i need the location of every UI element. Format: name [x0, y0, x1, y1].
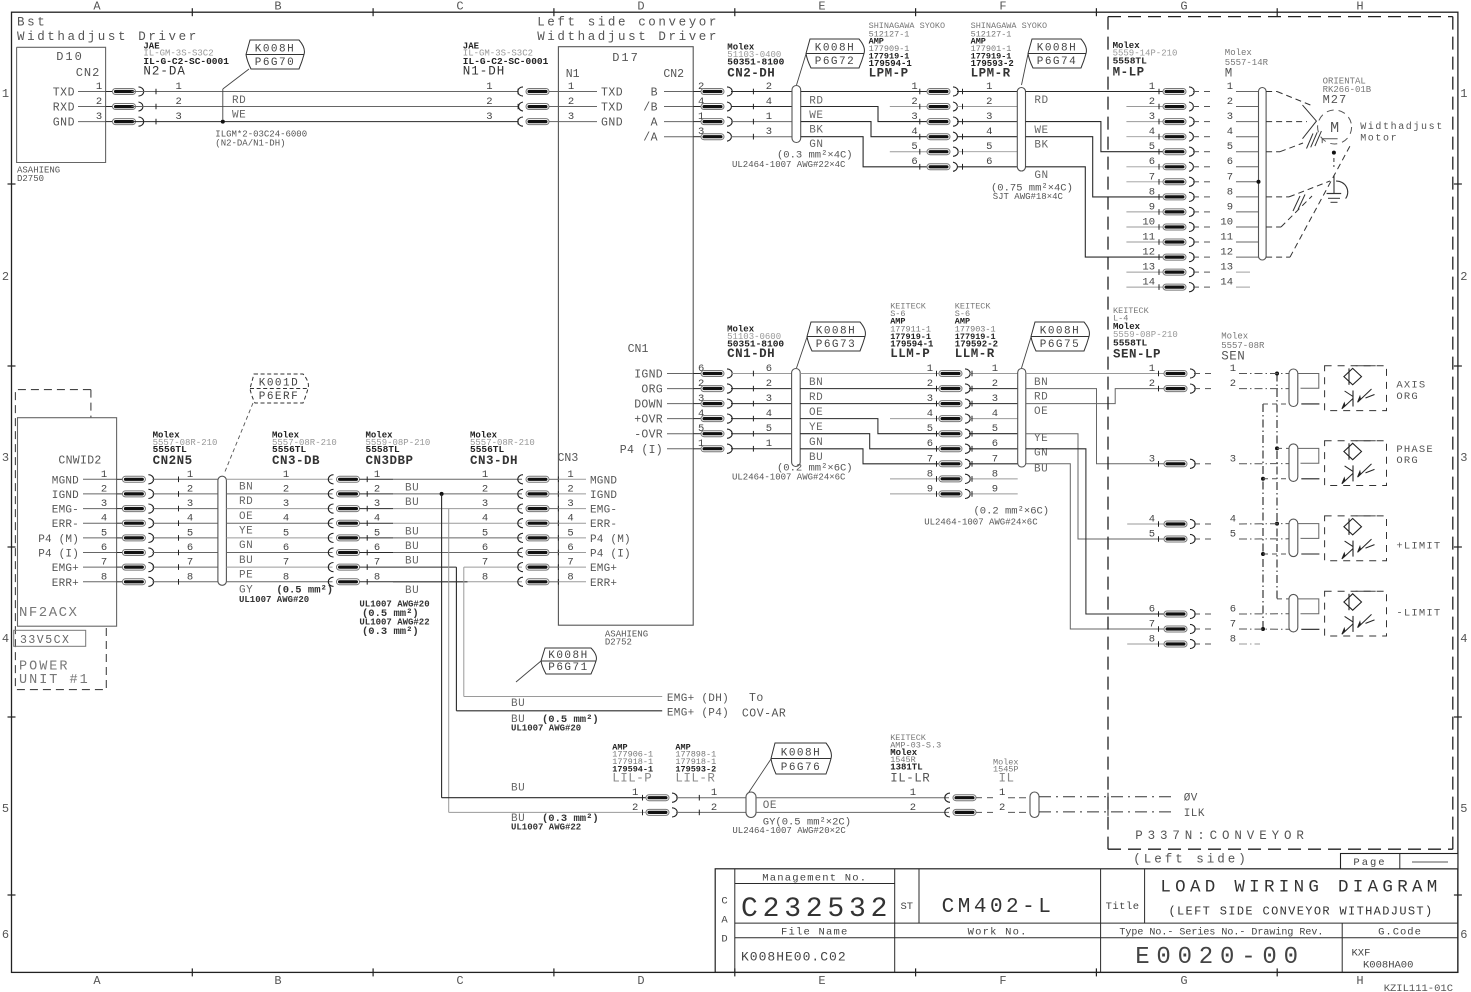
svg-text:RXD: RXD — [53, 102, 75, 115]
svg-text:5: 5 — [187, 527, 193, 539]
svg-text:(LEFT SIDE CONVEYOR WITHADJUST: (LEFT SIDE CONVEYOR WITHADJUST) — [1168, 905, 1433, 919]
svg-text:Widthadjust Driver: Widthadjust Driver — [17, 30, 199, 44]
sensor bus line B LED supply — [1275, 372, 1279, 599]
ground symbol — [1327, 158, 1348, 202]
svg-text:3: 3 — [2, 451, 9, 465]
power unit dashed enclosure — [15, 390, 106, 690]
svg-text:6: 6 — [1230, 604, 1236, 616]
driver box D17 — [558, 47, 693, 626]
svg-text:6: 6 — [766, 363, 772, 375]
svg-text:11: 11 — [1142, 232, 1155, 244]
svg-text:Molex: Molex — [1221, 332, 1248, 342]
svg-text:9: 9 — [1149, 201, 1155, 213]
svg-text:YE: YE — [809, 422, 823, 434]
svg-text:NF2ACX: NF2ACX — [19, 605, 78, 621]
header Molex CN3-DH — [470, 431, 535, 468]
svg-text:Widthadjust Driver: Widthadjust Driver — [537, 30, 719, 44]
svg-text:BN: BN — [239, 482, 253, 494]
svg-text:BU: BU — [405, 541, 419, 553]
svg-text:BU: BU — [405, 497, 419, 509]
svg-text:2: 2 — [1230, 378, 1236, 390]
sensor housing dashed box — [1325, 441, 1387, 486]
svg-text:33V5CX: 33V5CX — [20, 634, 70, 647]
svg-text:5: 5 — [911, 141, 917, 153]
svg-text:COV-AR: COV-AR — [742, 708, 786, 721]
svg-text:WE: WE — [809, 110, 823, 122]
svg-text:BN: BN — [1034, 377, 1048, 389]
svg-text:3: 3 — [374, 498, 380, 510]
svg-text:1: 1 — [766, 438, 772, 450]
svg-text:9: 9 — [927, 483, 933, 495]
photo interrupter LED symbol — [1344, 591, 1376, 610]
wire rows into LIL-P — [442, 783, 646, 833]
svg-text:8: 8 — [374, 571, 380, 583]
svg-text:P4 (I): P4 (I) — [590, 549, 631, 561]
connector LPM-P to LPM-R rows — [911, 81, 1017, 171]
svg-text:D2750: D2750 — [17, 174, 44, 184]
svg-text:ORG: ORG — [641, 384, 663, 397]
page number box — [1341, 854, 1458, 870]
header Molex CN2N5 — [153, 431, 218, 468]
svg-text:CNWID2: CNWID2 — [58, 455, 101, 468]
svg-text:2: 2 — [999, 802, 1005, 814]
svg-text:UNIT #1: UNIT #1 — [19, 673, 90, 688]
svg-text:4: 4 — [101, 513, 107, 525]
svg-text:AXIS: AXIS — [1396, 380, 1426, 392]
sensor wiring loop — [1298, 448, 1320, 478]
svg-text:SEN-LP: SEN-LP — [1113, 347, 1161, 361]
svg-text:Work No.: Work No. — [968, 927, 1028, 939]
svg-text:C: C — [456, 974, 463, 988]
svg-text:(0.3 mm²): (0.3 mm²) — [362, 626, 419, 638]
svg-text:+OVR: +OVR — [634, 414, 663, 427]
title block — [715, 869, 1458, 973]
header Molex M — [1225, 48, 1269, 81]
svg-text:5: 5 — [1149, 141, 1155, 153]
svg-text:PE: PE — [239, 569, 253, 581]
sensor connector sheath — [1289, 444, 1298, 482]
svg-text:2: 2 — [1149, 378, 1155, 390]
svg-text:CN3: CN3 — [558, 452, 579, 465]
header KEITECK LLM-P — [890, 302, 934, 361]
svg-text:GN: GN — [239, 540, 253, 552]
svg-text:LPM-P: LPM-P — [869, 67, 909, 81]
svg-text:4: 4 — [482, 513, 488, 525]
svg-text:-LIMIT: -LIMIT — [1396, 608, 1441, 620]
svg-text:IGND: IGND — [52, 490, 79, 502]
label P337N CONVEYOR Left side — [1133, 829, 1309, 867]
svg-text:Bst: Bst — [17, 16, 47, 30]
svg-text:P6G75: P6G75 — [1040, 339, 1081, 351]
sensor housing dashed box — [1325, 366, 1387, 411]
svg-text:8: 8 — [1149, 186, 1155, 198]
wire rows CN2 to CN2-DH cable — [693, 81, 792, 141]
svg-text:3: 3 — [175, 111, 181, 123]
svg-text:2: 2 — [927, 378, 933, 390]
svg-text:5: 5 — [986, 141, 992, 153]
junction dot below motor — [1332, 151, 1336, 155]
svg-text:4: 4 — [927, 408, 933, 420]
svg-text:CN2N5: CN2N5 — [153, 454, 193, 468]
svg-text:1: 1 — [766, 111, 772, 123]
svg-text:14: 14 — [1220, 277, 1233, 289]
driver box D10 — [17, 47, 106, 162]
svg-text:G: G — [1180, 974, 1187, 988]
svg-text:WE: WE — [232, 110, 246, 122]
header JAE N1-DH — [463, 42, 549, 79]
svg-text:BK: BK — [809, 124, 823, 136]
svg-text:2: 2 — [175, 96, 181, 108]
svg-text:MGND: MGND — [590, 475, 617, 487]
svg-text:8: 8 — [992, 468, 998, 480]
wire colors BN RD OE YE GN BU and routing to SEN-LP — [924, 374, 1164, 630]
svg-text:5: 5 — [766, 423, 772, 435]
svg-text:CN2: CN2 — [76, 66, 101, 80]
label POWER UNIT #1 — [19, 660, 90, 689]
svg-text:7: 7 — [187, 557, 193, 569]
svg-text:F: F — [999, 0, 1006, 14]
wire rows CN2N5 to CN3-DB to CN3DBP — [226, 469, 393, 587]
svg-text:3: 3 — [486, 111, 492, 123]
svg-text:K008HE00.C02: K008HE00.C02 — [741, 950, 847, 965]
svg-text:UL2464-1007 AWG#24×6C: UL2464-1007 AWG#24×6C — [732, 473, 846, 483]
svg-text:3: 3 — [101, 498, 107, 510]
svg-text:6: 6 — [911, 156, 917, 168]
photo interrupter LED symbol — [1344, 366, 1376, 385]
svg-text:6: 6 — [927, 438, 933, 450]
svg-text:3: 3 — [1149, 453, 1155, 465]
svg-text:UL1007 AWG#20: UL1007 AWG#20 — [511, 724, 581, 734]
svg-text:M: M — [1225, 67, 1233, 81]
svg-text:ERR-: ERR- — [590, 519, 617, 531]
cable flag K008H P6G75 — [1022, 322, 1090, 368]
photo transistor symbol — [1342, 464, 1375, 484]
svg-text:GN: GN — [1034, 448, 1048, 460]
svg-text:IL-LR: IL-LR — [890, 772, 930, 786]
svg-text:UL2464-1007 AWG#22×4C: UL2464-1007 AWG#22×4C — [732, 160, 846, 170]
wire tap verticals to lower section — [442, 494, 464, 813]
svg-text:1: 1 — [911, 81, 917, 93]
svg-text:8: 8 — [101, 571, 107, 583]
header Molex M-LP — [1113, 41, 1178, 80]
svg-text:6: 6 — [992, 438, 998, 450]
svg-text:4: 4 — [2, 632, 9, 646]
svg-text:P4 (I): P4 (I) — [620, 444, 663, 457]
svg-text:UL2464-1007 AWG#20×2C: UL2464-1007 AWG#20×2C — [732, 826, 846, 836]
svg-text:5: 5 — [374, 527, 380, 539]
svg-text:9: 9 — [992, 483, 998, 495]
svg-text:1: 1 — [175, 81, 181, 93]
svg-text:EMG-: EMG- — [590, 505, 617, 517]
svg-text:3: 3 — [1227, 111, 1233, 123]
svg-text:G: G — [1180, 0, 1187, 14]
svg-text:2: 2 — [766, 81, 772, 93]
svg-text:8: 8 — [1149, 634, 1155, 646]
svg-text:1: 1 — [283, 469, 289, 481]
svg-text:RD: RD — [809, 392, 823, 404]
junction dot M pin7 — [1257, 180, 1261, 184]
svg-text:Widthadjust: Widthadjust — [1360, 121, 1444, 133]
connector LIL-P to LIL-R rows — [632, 787, 746, 817]
svg-text:P6ERF: P6ERF — [259, 391, 300, 403]
header KEITECK LLM-R — [955, 302, 998, 361]
svg-text:6: 6 — [482, 542, 488, 554]
svg-text:BU: BU — [1034, 464, 1048, 476]
svg-text:5: 5 — [1460, 802, 1467, 816]
svg-text:N2-DA: N2-DA — [143, 65, 186, 79]
svg-text:4: 4 — [1149, 126, 1155, 138]
svg-text:9: 9 — [1227, 201, 1233, 213]
svg-text:LOAD WIRING DIAGRAM: LOAD WIRING DIAGRAM — [1160, 878, 1441, 898]
svg-text:12: 12 — [1142, 247, 1155, 259]
svg-text:ERR-: ERR- — [52, 519, 79, 531]
svg-text:P4 (I): P4 (I) — [38, 549, 79, 561]
svg-text:H: H — [1356, 974, 1363, 988]
sensor label -LIMIT — [1396, 608, 1441, 620]
header Molex CN3DBP — [366, 431, 431, 468]
svg-text:1: 1 — [927, 363, 933, 375]
motor M circle — [1318, 110, 1352, 144]
svg-text:TXD: TXD — [53, 87, 75, 100]
cable sheath IL — [1030, 792, 1039, 818]
header Molex CN3-DB — [272, 431, 337, 468]
cable sheath LPM-R — [1017, 88, 1025, 172]
svg-text:3: 3 — [766, 126, 772, 138]
svg-text:2: 2 — [992, 378, 998, 390]
svg-text:B: B — [651, 87, 658, 100]
svg-text:BU: BU — [511, 783, 525, 795]
svg-text:1: 1 — [1227, 81, 1233, 93]
svg-text:CN2-DH: CN2-DH — [727, 67, 775, 81]
svg-text:CN1-DH: CN1-DH — [727, 347, 775, 361]
svg-text:BU: BU — [239, 555, 253, 567]
svg-text:2: 2 — [101, 483, 107, 495]
svg-text:C: C — [721, 896, 727, 908]
svg-text:1: 1 — [486, 81, 492, 93]
svg-text:1: 1 — [101, 469, 107, 481]
svg-text:Title: Title — [1106, 901, 1140, 913]
svg-text:G.Code: G.Code — [1378, 927, 1422, 939]
svg-text:RD: RD — [239, 496, 253, 508]
svg-text:1: 1 — [1460, 87, 1467, 101]
svg-text:B: B — [274, 0, 281, 14]
svg-text:K008HA00: K008HA00 — [1363, 960, 1413, 972]
sensor connector sheath — [1289, 519, 1298, 557]
svg-text:7: 7 — [1230, 619, 1236, 631]
header SHINAGAWA LPM-P — [869, 21, 946, 81]
wire rows LIL-R to IL-LR — [756, 787, 976, 817]
cable sheath CN2N5 — [218, 476, 227, 585]
svg-text:GN: GN — [809, 437, 823, 449]
cable flag K001D P6ERF dashed — [224, 374, 308, 474]
svg-text:D: D — [637, 974, 644, 988]
svg-text:4: 4 — [1227, 126, 1233, 138]
svg-text:KZIL111-01C: KZIL111-01C — [1384, 983, 1453, 992]
svg-text:PHASE: PHASE — [1396, 444, 1434, 456]
svg-text:5: 5 — [1227, 141, 1233, 153]
conveyor dashed enclosure P337N — [1108, 17, 1453, 850]
svg-text:7: 7 — [927, 453, 933, 465]
svg-text:Management No.: Management No. — [762, 872, 867, 884]
svg-text:P6G72: P6G72 — [815, 56, 856, 68]
svg-text:YE: YE — [1034, 433, 1048, 445]
svg-text:3: 3 — [482, 498, 488, 510]
svg-text:LLM-R: LLM-R — [955, 347, 995, 361]
svg-text:ERR+: ERR+ — [590, 578, 617, 590]
svg-text:3: 3 — [96, 111, 102, 123]
cable notes UL1007 AWG — [359, 600, 429, 639]
connector SEN-LP to SEN 8 rows — [1127, 363, 1236, 649]
connector CN1 of D17 pins — [620, 343, 792, 457]
svg-text:B: B — [274, 974, 281, 988]
svg-text:GND: GND — [601, 117, 623, 130]
svg-text:IGND: IGND — [590, 490, 617, 502]
svg-text:3: 3 — [927, 393, 933, 405]
svg-text:BN: BN — [809, 377, 823, 389]
photo transistor symbol — [1342, 539, 1375, 559]
svg-text:6: 6 — [101, 542, 107, 554]
svg-text:3: 3 — [766, 393, 772, 405]
photo transistor symbol — [1342, 614, 1375, 634]
svg-text:(0.2 mm²×6C): (0.2 mm²×6C) — [974, 506, 1050, 518]
svg-text:2: 2 — [1227, 96, 1233, 108]
svg-text:5: 5 — [283, 527, 289, 539]
svg-text:ØV: ØV — [1184, 793, 1198, 805]
svg-text:4: 4 — [1230, 514, 1236, 526]
cable sheath M — [1259, 88, 1267, 261]
svg-text:Type No.- Series No.- Drawing: Type No.- Series No.- Drawing Rev. — [1119, 926, 1323, 938]
sensor housing dashed box — [1325, 516, 1387, 561]
cable sheath LLM-R — [1018, 369, 1026, 468]
svg-text:5: 5 — [482, 527, 488, 539]
svg-text:7: 7 — [101, 557, 107, 569]
wire EMG+ P4 to COV-AR — [456, 708, 786, 721]
svg-text:K008H: K008H — [548, 650, 589, 662]
svg-text:(N2-DA/N1-DH): (N2-DA/N1-DH) — [215, 139, 285, 149]
svg-text:3: 3 — [1230, 453, 1236, 465]
svg-text:TXD: TXD — [601, 102, 623, 115]
sensor label PHASE ORG — [1396, 444, 1434, 467]
svg-text:8: 8 — [187, 571, 193, 583]
svg-text:M-LP: M-LP — [1113, 66, 1145, 80]
svg-text:K001D: K001D — [259, 377, 300, 389]
header KEITECK SEN-LP — [1113, 306, 1178, 361]
svg-text:K008H: K008H — [255, 43, 296, 55]
svg-text:2: 2 — [486, 96, 492, 108]
svg-text:7: 7 — [992, 453, 998, 465]
header Molex SEN — [1221, 332, 1265, 364]
svg-text:6: 6 — [2, 928, 9, 942]
svg-text:D: D — [637, 0, 644, 14]
svg-text:A: A — [651, 117, 658, 130]
svg-text:ERR+: ERR+ — [52, 578, 79, 590]
svg-text:+LIMIT: +LIMIT — [1396, 541, 1441, 553]
sensor label +LIMIT — [1396, 541, 1441, 553]
svg-text:2: 2 — [911, 96, 917, 108]
svg-text:CN3DBP: CN3DBP — [366, 454, 414, 468]
svg-text:OE: OE — [239, 511, 253, 523]
svg-text:E0020-00: E0020-00 — [1135, 944, 1305, 971]
sensor wiring loop — [1298, 599, 1320, 629]
svg-text:-OVR: -OVR — [634, 429, 663, 442]
svg-text:K008H: K008H — [815, 42, 856, 54]
svg-text:/B: /B — [643, 102, 658, 115]
svg-text:1: 1 — [986, 81, 992, 93]
svg-text:To: To — [749, 692, 764, 705]
connector CN2 of D17 pins B /B A /A — [643, 81, 704, 145]
svg-text:3: 3 — [1149, 111, 1155, 123]
svg-text:2: 2 — [910, 802, 916, 814]
svg-text:K008H: K008H — [781, 747, 822, 759]
svg-text:BU: BU — [405, 482, 419, 494]
svg-text:6: 6 — [283, 542, 289, 554]
cable hatch marks near motor — [1307, 131, 1322, 148]
svg-text:OE: OE — [809, 407, 823, 419]
svg-text:3: 3 — [986, 111, 992, 123]
svg-text:10: 10 — [1220, 217, 1233, 229]
svg-text:DOWN: DOWN — [634, 399, 663, 412]
svg-text:6: 6 — [1227, 156, 1233, 168]
svg-text:2: 2 — [1149, 96, 1155, 108]
cable flag K008H P6G71 — [516, 648, 596, 682]
svg-text:1: 1 — [187, 469, 193, 481]
svg-text:E: E — [818, 974, 825, 988]
svg-text:CN2: CN2 — [663, 68, 684, 81]
svg-text:MGND: MGND — [52, 475, 79, 487]
svg-text:5: 5 — [2, 802, 9, 816]
svg-text:7: 7 — [1227, 171, 1233, 183]
sensor feed wires dash-dot — [1239, 374, 1289, 645]
svg-text:RD: RD — [809, 95, 823, 107]
svg-text:2: 2 — [482, 483, 488, 495]
svg-text:EMG+: EMG+ — [52, 563, 79, 575]
interlock wires 0V ILK dash-dot — [1039, 793, 1205, 820]
svg-text:5: 5 — [1149, 529, 1155, 541]
sensor housing dashed box — [1325, 591, 1387, 636]
svg-text:OE: OE — [1034, 406, 1048, 418]
svg-text:8: 8 — [927, 468, 933, 480]
svg-text:14: 14 — [1142, 277, 1155, 289]
svg-text:1: 1 — [1230, 363, 1236, 375]
svg-text:ORG: ORG — [1396, 455, 1419, 467]
svg-text:2: 2 — [2, 270, 9, 284]
sensor connector sheath — [1289, 594, 1298, 632]
svg-text:1: 1 — [910, 787, 916, 799]
header Molex IL — [993, 757, 1019, 785]
wire arrow into motor — [1266, 92, 1316, 152]
svg-text:3: 3 — [992, 393, 998, 405]
svg-text:2: 2 — [632, 802, 638, 814]
svg-text:M27: M27 — [1323, 93, 1348, 107]
svg-text:GN: GN — [1034, 170, 1048, 182]
svg-text:4: 4 — [911, 126, 917, 138]
svg-text:P6G70: P6G70 — [255, 57, 296, 69]
cable flag K008H P6G70 — [221, 40, 305, 124]
header Molex CN2-DH — [727, 43, 784, 81]
svg-text:P337N:CONVEYOR: P337N:CONVEYOR — [1135, 829, 1309, 843]
svg-text:4: 4 — [374, 513, 380, 525]
svg-text:EMG+ (P4): EMG+ (P4) — [667, 708, 729, 720]
wire rows CNWID2 to CN2N5 — [117, 469, 218, 587]
wire color OE and cable note GY — [732, 800, 851, 836]
svg-text:CM402-L: CM402-L — [942, 896, 1055, 919]
svg-text:Molex: Molex — [1225, 48, 1252, 58]
svg-text:3: 3 — [283, 498, 289, 510]
svg-text:13: 13 — [1142, 262, 1155, 274]
svg-text:2: 2 — [1460, 270, 1467, 284]
svg-text:ILK: ILK — [1184, 808, 1205, 820]
svg-text:K008H: K008H — [1037, 42, 1078, 54]
